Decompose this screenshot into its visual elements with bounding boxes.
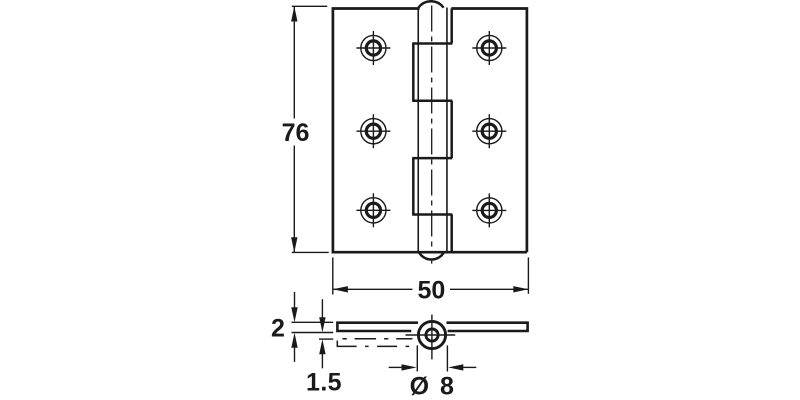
dimension 50 left extension line xyxy=(332,257,334,294)
dimension 1.5 extension line xyxy=(319,338,333,340)
svg-text:76: 76 xyxy=(282,119,310,147)
dimension 76 arrow up xyxy=(291,6,297,21)
hinge left leaf outline xyxy=(333,9,527,253)
hidden lower leaf left edge xyxy=(336,341,338,347)
dimension 2 bottom extension line xyxy=(292,332,334,334)
dimension 50 right extension line xyxy=(527,257,529,293)
screw hole H4 crosshair xyxy=(472,31,506,65)
knuckle 1 right edge xyxy=(450,9,453,44)
section view barrel vertical center line xyxy=(431,315,433,360)
dimension 2 arrow up xyxy=(291,333,297,348)
section view top leaf bar outline right part xyxy=(447,323,528,331)
knuckle 3 right edge xyxy=(450,101,453,158)
dimension 50 arrow left xyxy=(333,286,348,292)
pin center line lower tick xyxy=(431,259,433,264)
dimension 50 line left segment xyxy=(333,288,413,290)
dimension 76 bottom extension line xyxy=(292,251,329,253)
knuckle separator 3 xyxy=(412,157,452,160)
dimension 76 arrow down xyxy=(291,237,297,252)
dimension 76 top extension line xyxy=(292,5,328,7)
dimension 1.5 arrow down xyxy=(319,317,325,332)
dimension 1.5 arrow up xyxy=(319,339,325,354)
screw hole H1 circles xyxy=(361,35,386,60)
svg-text:50: 50 xyxy=(417,277,445,305)
svg-text:1.5: 1.5 xyxy=(306,369,342,397)
hidden lower leaf bottom dashed line xyxy=(337,345,410,347)
dimension 2 upper arrow tail xyxy=(294,292,296,308)
pin center line xyxy=(431,6,433,248)
knuckle 5 right edge xyxy=(450,215,453,253)
knuckle 2 left edge xyxy=(412,44,415,101)
dimension 76 line upper segment xyxy=(293,6,295,118)
screw hole H6 circles xyxy=(477,198,502,223)
dimension 2 top extension line xyxy=(292,321,334,323)
section view pin inner circle xyxy=(426,329,438,341)
knuckle separator 4 xyxy=(412,213,452,216)
pin bottom dome cap xyxy=(419,252,444,259)
dimension diameter 8 arrow pointing right xyxy=(402,364,417,370)
dimension 2 lower arrow tail xyxy=(294,347,296,362)
dimension 2 arrow down xyxy=(291,307,297,322)
screw hole H2 circles xyxy=(361,119,386,144)
pin top dome cap xyxy=(418,1,443,7)
screw hole H5 circles xyxy=(477,119,502,144)
knuckle 4 left edge xyxy=(412,158,415,214)
dimension diameter 8 right arrow tail xyxy=(463,366,476,368)
screw hole H3 circles xyxy=(361,198,386,223)
screw hole H6 crosshair xyxy=(472,193,506,227)
dimension 1.5 lower arrow tail xyxy=(321,354,323,369)
screw hole H5 crosshair xyxy=(472,114,506,148)
knuckle separator 1 xyxy=(412,42,452,45)
dimension diameter 8 right extension line xyxy=(446,345,448,371)
dimension diameter 8 left extension line xyxy=(416,345,418,371)
pin barrel right edge line xyxy=(446,8,448,253)
screw hole H1 crosshair xyxy=(356,31,390,65)
screw hole H2 crosshair xyxy=(356,114,390,148)
dimension 1.5 upper arrow tail xyxy=(321,299,323,318)
screw hole H4 circles xyxy=(477,35,502,60)
knuckle separator 2 xyxy=(412,100,452,103)
svg-text:2: 2 xyxy=(271,315,285,343)
dimension 50 line right segment xyxy=(450,288,528,290)
svg-text:Ø 8: Ø 8 xyxy=(410,373,456,400)
hinge right leaf outline xyxy=(451,9,527,253)
dimension diameter 8 arrow pointing left xyxy=(448,364,463,370)
pin barrel left edge line xyxy=(417,9,419,253)
hidden lower leaf top dashed line xyxy=(343,338,413,340)
dimension diameter 8 left arrow tail xyxy=(389,366,402,368)
section view top leaf bar outline xyxy=(337,323,418,331)
dimension 50 arrow right xyxy=(513,286,528,292)
section view barrel outer circle xyxy=(418,321,445,348)
section view barrel horizontal center line xyxy=(406,334,456,336)
dimension 76 line lower segment xyxy=(293,146,295,253)
screw hole H3 crosshair xyxy=(356,193,390,227)
